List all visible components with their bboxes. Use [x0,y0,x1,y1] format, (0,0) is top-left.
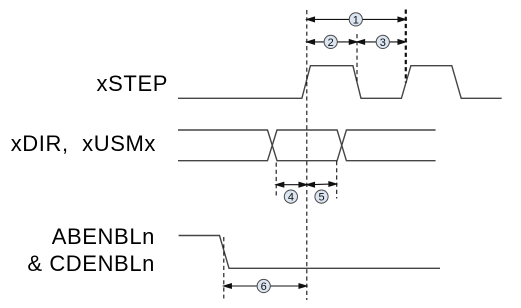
svg-text:xDIR, xUSMx: xDIR, xUSMx [11,131,156,156]
svg-text:1: 1 [353,15,359,27]
svg-text:& CDENBLn: & CDENBLn [27,251,155,276]
svg-text:6: 6 [261,281,267,293]
svg-text:4: 4 [288,192,294,204]
svg-text:2: 2 [328,37,334,49]
svg-text:ABENBLn: ABENBLn [52,224,155,249]
svg-text:5: 5 [318,192,324,204]
svg-text:3: 3 [380,37,386,49]
svg-text:xSTEP: xSTEP [97,71,168,96]
